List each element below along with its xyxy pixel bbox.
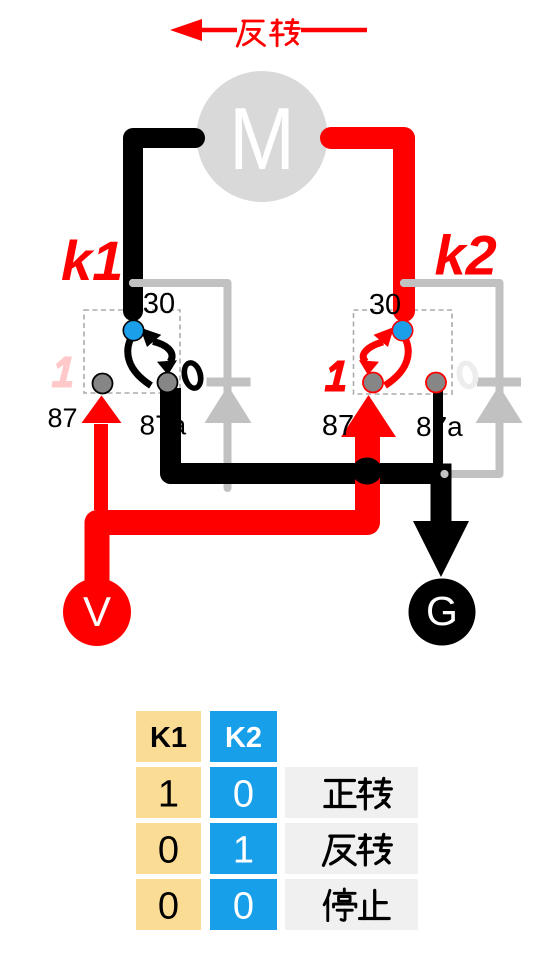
svg-text:M: M	[229, 89, 295, 188]
svg-text:0: 0	[233, 774, 254, 816]
svg-text:0: 0	[158, 830, 179, 872]
svg-text:V: V	[83, 588, 111, 635]
svg-text:k2: k2	[435, 224, 497, 287]
svg-text:0: 0	[233, 886, 254, 928]
svg-text:K1: K1	[150, 722, 187, 754]
svg-text:G: G	[426, 588, 458, 634]
svg-text:1: 1	[233, 830, 254, 872]
svg-text:30: 30	[369, 289, 401, 321]
svg-text:87: 87	[322, 410, 354, 442]
svg-text:k1: k1	[61, 229, 123, 292]
svg-text:30: 30	[143, 288, 175, 320]
svg-text:1: 1	[158, 774, 179, 816]
svg-text:87: 87	[47, 403, 77, 433]
svg-text:0: 0	[158, 886, 179, 928]
svg-text:K2: K2	[225, 722, 262, 754]
